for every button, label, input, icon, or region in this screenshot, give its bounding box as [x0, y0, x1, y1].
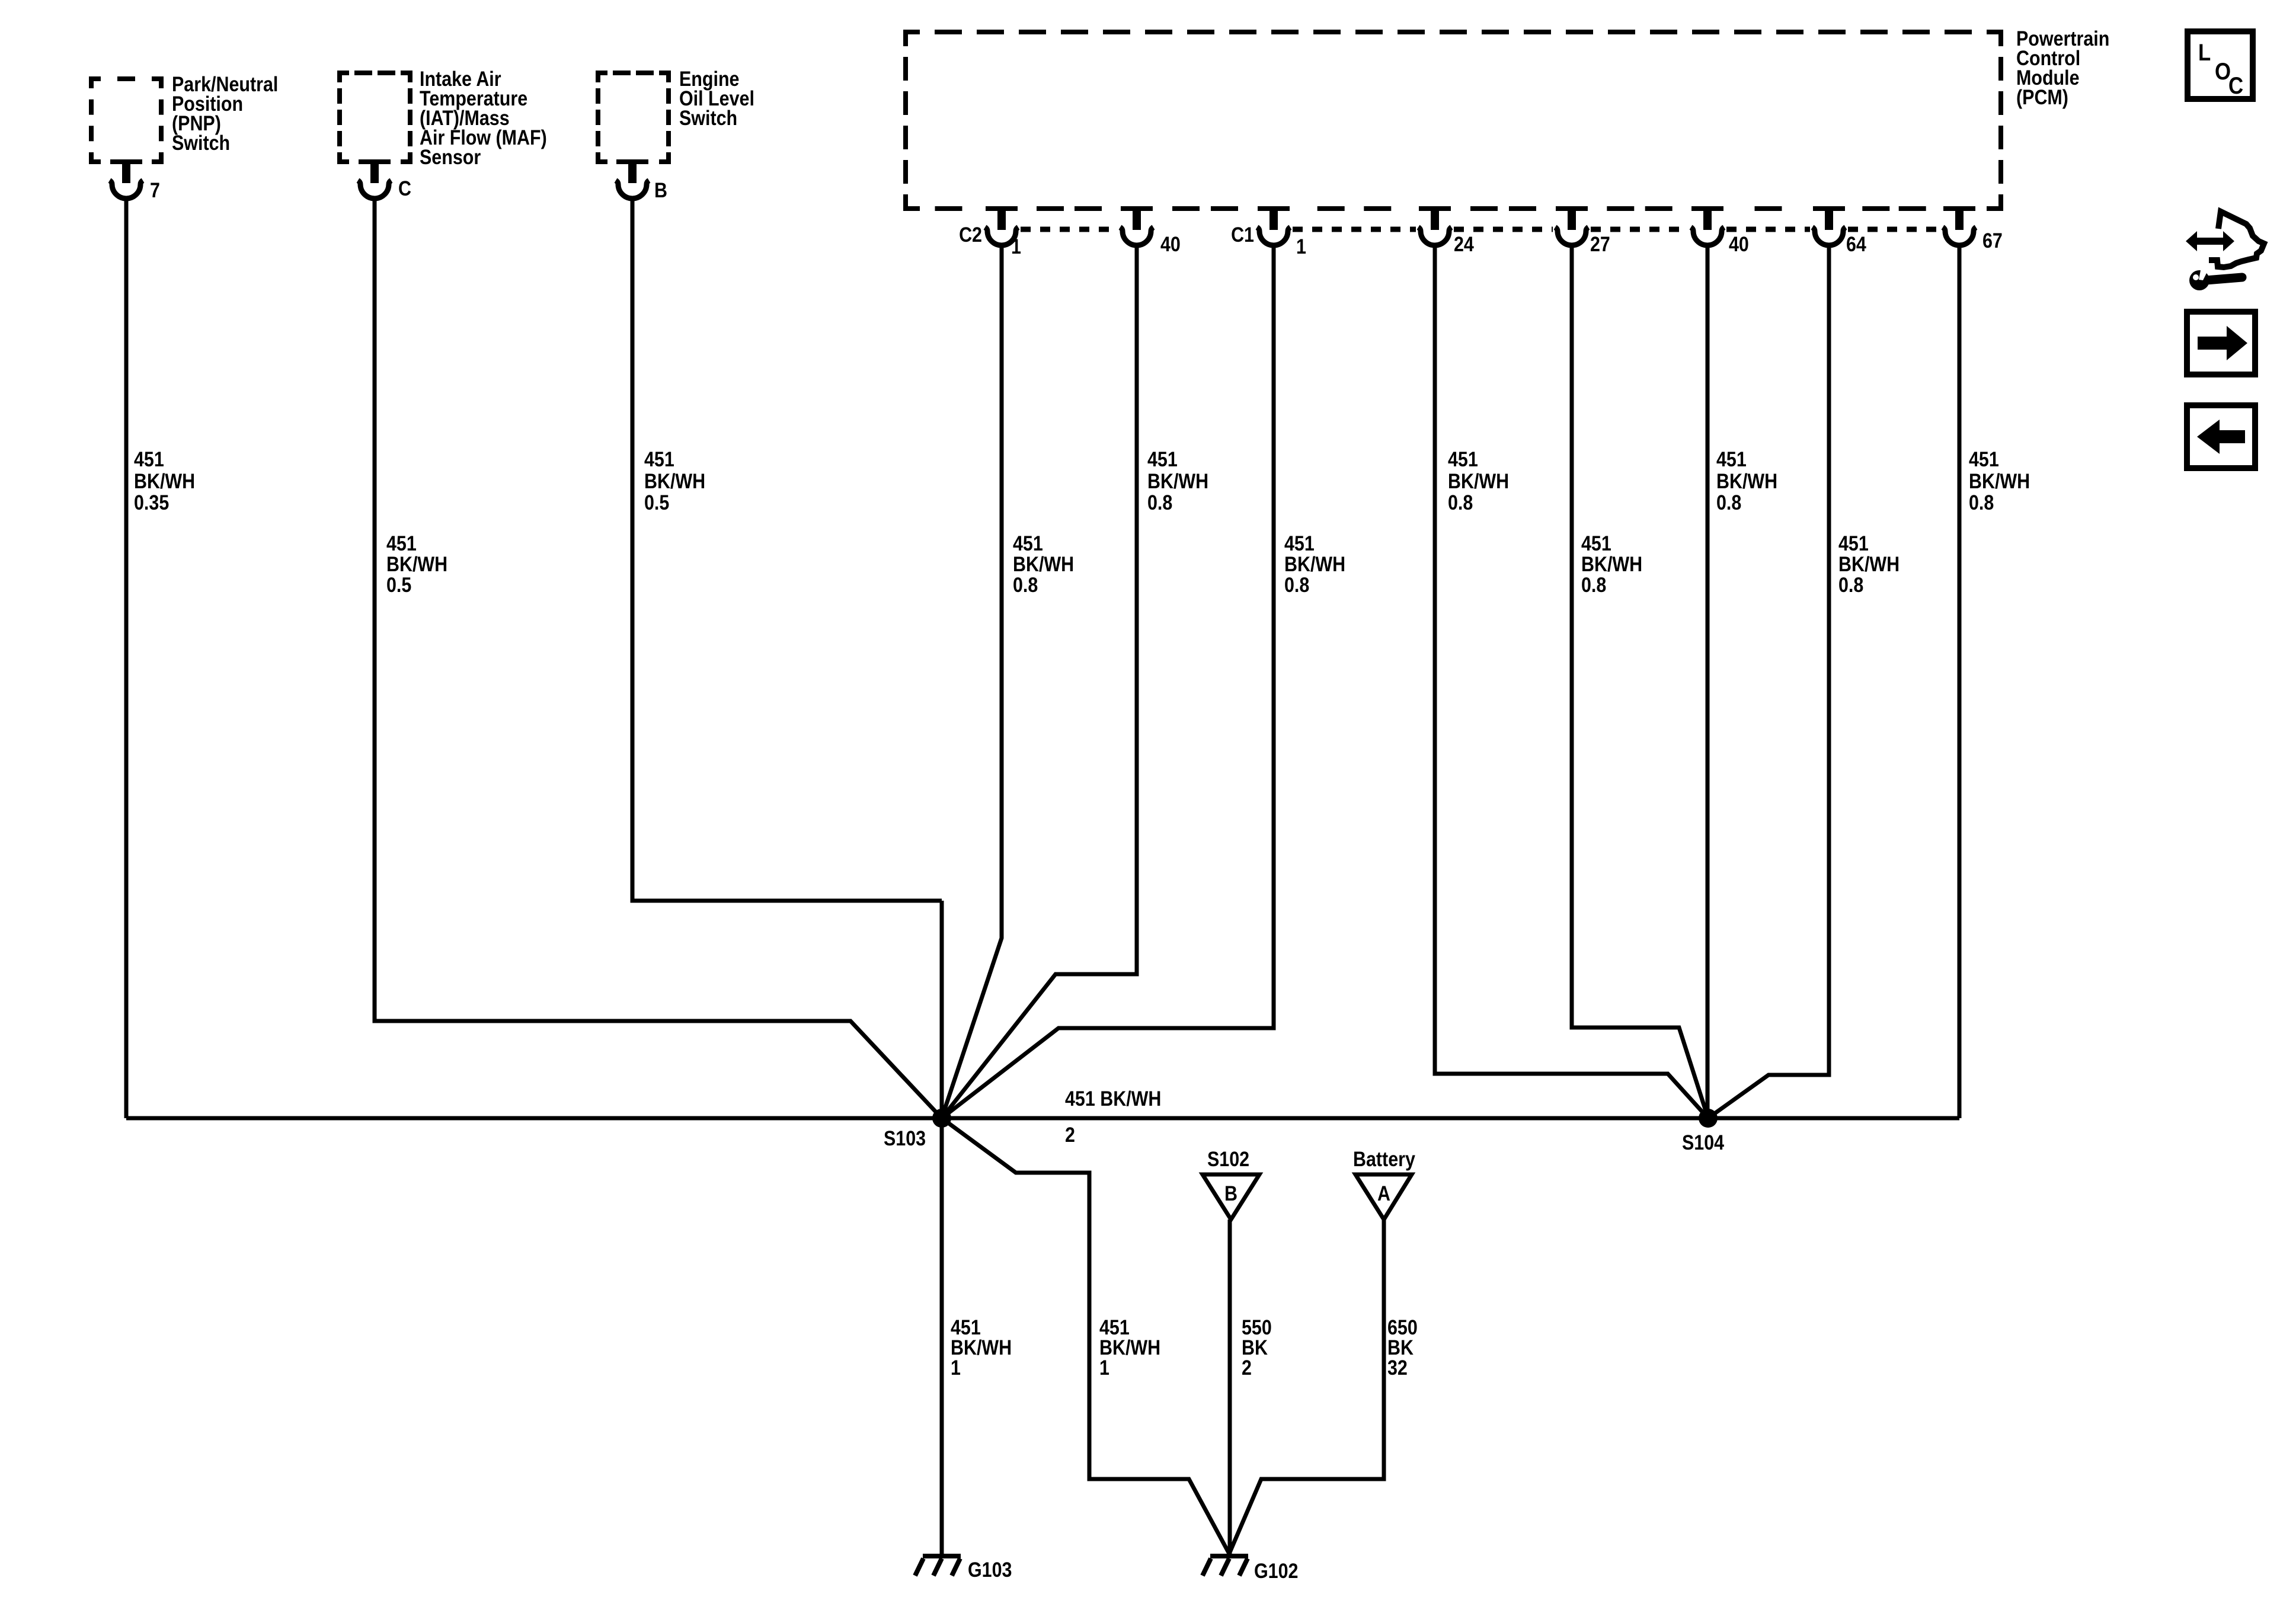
- svg-text:B: B: [654, 178, 667, 201]
- LOC legend box: [2188, 31, 2253, 99]
- svg-text:BK/WH: BK/WH: [644, 469, 705, 492]
- svg-text:Switch: Switch: [679, 106, 737, 129]
- wire label Battery wire: [1387, 1315, 1418, 1379]
- svg-text:0.8: 0.8: [1013, 573, 1038, 596]
- svg-text:451: 451: [1838, 532, 1869, 555]
- wire 451 BK/WH from PCM C2 pin 1: [942, 245, 1002, 1118]
- PCM connector C2 pin 1: [985, 206, 1018, 245]
- G102 label: [1254, 1559, 1298, 1582]
- wire 451 BK/WH from PCM C2 pin 40: [942, 245, 1137, 1118]
- svg-text:C: C: [398, 177, 411, 200]
- wire label PNP wire: [134, 447, 195, 514]
- connector label C1: [1231, 223, 1254, 246]
- PCM connector C1 pin 40: [1691, 206, 1724, 245]
- wire label pin 67 wire: [1969, 447, 2030, 514]
- wire label S102 wire: [1242, 1315, 1272, 1379]
- svg-text:40: 40: [1160, 232, 1181, 255]
- IAT/MAF sensor box: [340, 73, 410, 162]
- wire label pin 24 wire: [1448, 447, 1509, 514]
- svg-text:B: B: [1224, 1182, 1237, 1205]
- svg-text:(PCM): (PCM): [2016, 85, 2068, 108]
- svg-text:451: 451: [386, 532, 417, 555]
- PCM label: [2016, 27, 2109, 108]
- PCM connector C2 pin 40: [1120, 206, 1153, 245]
- wire 451 BK/WH from PCM pin 64: [1708, 245, 1829, 1118]
- PCM connector C1 pin 1: [1257, 206, 1290, 245]
- main bus wire label 451 BK/WH 2: [1065, 1087, 1161, 1146]
- harness routing icon: wrench: [2189, 267, 2242, 290]
- svg-text:L: L: [2198, 39, 2211, 66]
- wire label C2 pin 40 wire: [1147, 447, 1208, 514]
- svg-text:C1: C1: [1231, 223, 1254, 246]
- wire 451 BK/WH from PCM pin 40: [1706, 245, 1710, 1118]
- svg-text:64: 64: [1846, 232, 1867, 255]
- svg-text:G103: G103: [968, 1558, 1012, 1581]
- S103 label: [884, 1126, 926, 1150]
- svg-text:0.8: 0.8: [1969, 491, 1994, 514]
- wire 451 BK/WH from PCM pin 27: [1572, 245, 1708, 1118]
- harness routing icon: double arrow: [2186, 231, 2234, 251]
- wire label pin 40 wire: [1716, 447, 1777, 514]
- pin label B: [654, 178, 667, 201]
- svg-text:0.5: 0.5: [386, 573, 411, 596]
- svg-text:1: 1: [1011, 235, 1021, 258]
- PNP switch connector pin 7: [110, 159, 143, 199]
- ground G103: [915, 1556, 961, 1576]
- svg-text:C2: C2: [959, 223, 982, 246]
- wire label C2 pin 1 wire: [1013, 532, 1074, 596]
- svg-text:32: 32: [1387, 1356, 1408, 1379]
- svg-text:0.8: 0.8: [1716, 491, 1741, 514]
- letter A in Battery triangle: [1377, 1182, 1390, 1205]
- connector C1 dotted body line: [1293, 227, 1940, 232]
- wire 451 BK/WH S103 vertical to G103: [940, 901, 944, 1556]
- wire 451 BK/WH S103 branch to G102: [942, 1118, 1229, 1554]
- wire 451 BK/WH from PCM pin 24: [1435, 245, 1708, 1118]
- svg-text:1: 1: [951, 1356, 961, 1379]
- svg-text:67: 67: [1982, 229, 2003, 252]
- svg-text:2: 2: [1242, 1356, 1252, 1379]
- pin number label 64: [1846, 232, 1867, 255]
- PCM connector C1 pin 24: [1418, 206, 1451, 245]
- svg-text:0.8: 0.8: [1147, 491, 1172, 514]
- back arrow: [2197, 420, 2245, 454]
- pin number label 67: [1982, 229, 2003, 252]
- wire 451 BK/WH from PCM pin 67: [1958, 245, 1962, 1118]
- svg-text:S104: S104: [1682, 1131, 1725, 1154]
- svg-text:Battery: Battery: [1353, 1147, 1416, 1170]
- svg-text:451: 451: [1448, 447, 1478, 470]
- Engine Oil Level switch label: [679, 67, 754, 129]
- wire label IAT/MAF wire: [386, 532, 447, 596]
- svg-text:A: A: [1377, 1182, 1390, 1205]
- pin label C: [398, 177, 411, 200]
- svg-text:S103: S103: [884, 1126, 926, 1150]
- svg-text:BK/WH: BK/WH: [1716, 469, 1777, 492]
- S102 triangle connector B: [1203, 1174, 1259, 1219]
- wire label pin 64 wire: [1838, 532, 1900, 596]
- wire 451 BK/WH from PCM C1 pin 1: [942, 245, 1274, 1118]
- svg-text:0.8: 0.8: [1838, 573, 1863, 596]
- svg-text:BK/WH: BK/WH: [1284, 552, 1345, 575]
- svg-text:451: 451: [644, 447, 674, 470]
- svg-text:BK/WH: BK/WH: [386, 552, 447, 575]
- svg-text:1: 1: [1099, 1356, 1109, 1379]
- svg-text:BK/WH: BK/WH: [1581, 552, 1642, 575]
- svg-text:451: 451: [1716, 447, 1747, 470]
- svg-text:0.8: 0.8: [1284, 573, 1309, 596]
- svg-text:Sensor: Sensor: [420, 145, 481, 168]
- pin number label 24: [1454, 232, 1475, 255]
- svg-text:1: 1: [1296, 235, 1306, 258]
- forward arrow: [2198, 326, 2247, 360]
- back arrow box: [2187, 405, 2255, 468]
- PNP switch label: [172, 72, 278, 154]
- wire 451 BK/WH from IAT/MAF pin C: [375, 199, 942, 1118]
- svg-text:24: 24: [1454, 232, 1475, 255]
- svg-text:7: 7: [150, 178, 160, 201]
- letter B in S102 triangle: [1224, 1182, 1237, 1205]
- svg-text:Switch: Switch: [172, 131, 230, 154]
- wire label Oil Level wire: [644, 447, 705, 514]
- wire label G103 wire: [951, 1315, 1012, 1379]
- pin label 7: [150, 178, 160, 201]
- svg-text:BK/WH: BK/WH: [1448, 469, 1509, 492]
- svg-text:BK/WH: BK/WH: [1013, 552, 1074, 575]
- svg-text:S102: S102: [1207, 1147, 1249, 1170]
- PCM connector C1 pin 67: [1943, 206, 1976, 245]
- svg-text:0.5: 0.5: [644, 491, 669, 514]
- wire label pin 27 wire: [1581, 532, 1642, 596]
- splice junction S104: [1699, 1109, 1718, 1128]
- svg-text:G102: G102: [1254, 1559, 1298, 1582]
- svg-text:BK/WH: BK/WH: [1838, 552, 1900, 575]
- svg-text:C: C: [2228, 72, 2243, 99]
- wire 650 BK from Battery to G102: [1229, 1219, 1384, 1554]
- pin number label 40: [1729, 232, 1749, 255]
- wire main 451 BK/WH bus S103-S104: [126, 1116, 1959, 1121]
- Battery triangle connector A: [1355, 1174, 1412, 1219]
- pin number label 1: [1011, 235, 1021, 258]
- Park/Neutral Position switch box: [91, 79, 161, 162]
- svg-text:451: 451: [1284, 532, 1315, 555]
- svg-text:40: 40: [1729, 232, 1749, 255]
- IAT/MAF sensor label: [420, 67, 547, 168]
- svg-text:0.8: 0.8: [1448, 491, 1473, 514]
- svg-text:451: 451: [1147, 447, 1178, 470]
- PCM connector C1 pin 64: [1812, 206, 1846, 245]
- Engine Oil Level switch box: [598, 73, 669, 162]
- pin number label 40: [1160, 232, 1181, 255]
- svg-text:27: 27: [1590, 232, 1610, 255]
- connector C2 dotted body line: [1021, 227, 1118, 232]
- wire label S103-G102 wire: [1099, 1315, 1160, 1379]
- svg-text:451: 451: [1969, 447, 1999, 470]
- pin number label 27: [1590, 232, 1610, 255]
- svg-text:451: 451: [1581, 532, 1611, 555]
- connector label C2: [959, 223, 982, 246]
- wire 451 BK/WH from Oil Level pin B: [632, 199, 942, 901]
- svg-text:451: 451: [134, 447, 164, 470]
- svg-text:0.8: 0.8: [1581, 573, 1606, 596]
- svg-text:BK/WH: BK/WH: [1969, 469, 2030, 492]
- svg-text:BK/WH: BK/WH: [134, 469, 195, 492]
- Battery label: [1353, 1147, 1416, 1170]
- PCM module box (Powertrain Control Module): [906, 32, 2001, 209]
- pin number label 1: [1296, 235, 1306, 258]
- ground G102: [1203, 1556, 1248, 1576]
- svg-text:451 BK/WH: 451 BK/WH: [1065, 1087, 1161, 1110]
- wire 451 BK/WH from PNP pin 7: [124, 199, 129, 1118]
- splice junction S103: [932, 1109, 951, 1128]
- wire 550 BK from S102 to G102: [1228, 1219, 1232, 1554]
- svg-text:2: 2: [1065, 1123, 1075, 1146]
- G103 label: [968, 1558, 1012, 1581]
- S102 label: [1207, 1147, 1249, 1170]
- PCM connector C1 pin 27: [1555, 206, 1588, 245]
- LOC letters: [2198, 39, 2243, 99]
- Engine Oil Level switch connector pin B: [616, 159, 649, 199]
- IAT/MAF sensor connector pin C: [358, 159, 391, 199]
- harness routing icon: harness outline: [2209, 212, 2264, 267]
- S104 label: [1682, 1131, 1725, 1154]
- wire label C1 pin 1 wire: [1284, 532, 1345, 596]
- forward arrow box: [2187, 312, 2255, 375]
- svg-text:451: 451: [1013, 532, 1043, 555]
- svg-text:BK/WH: BK/WH: [1147, 469, 1208, 492]
- svg-text:0.35: 0.35: [134, 491, 169, 514]
